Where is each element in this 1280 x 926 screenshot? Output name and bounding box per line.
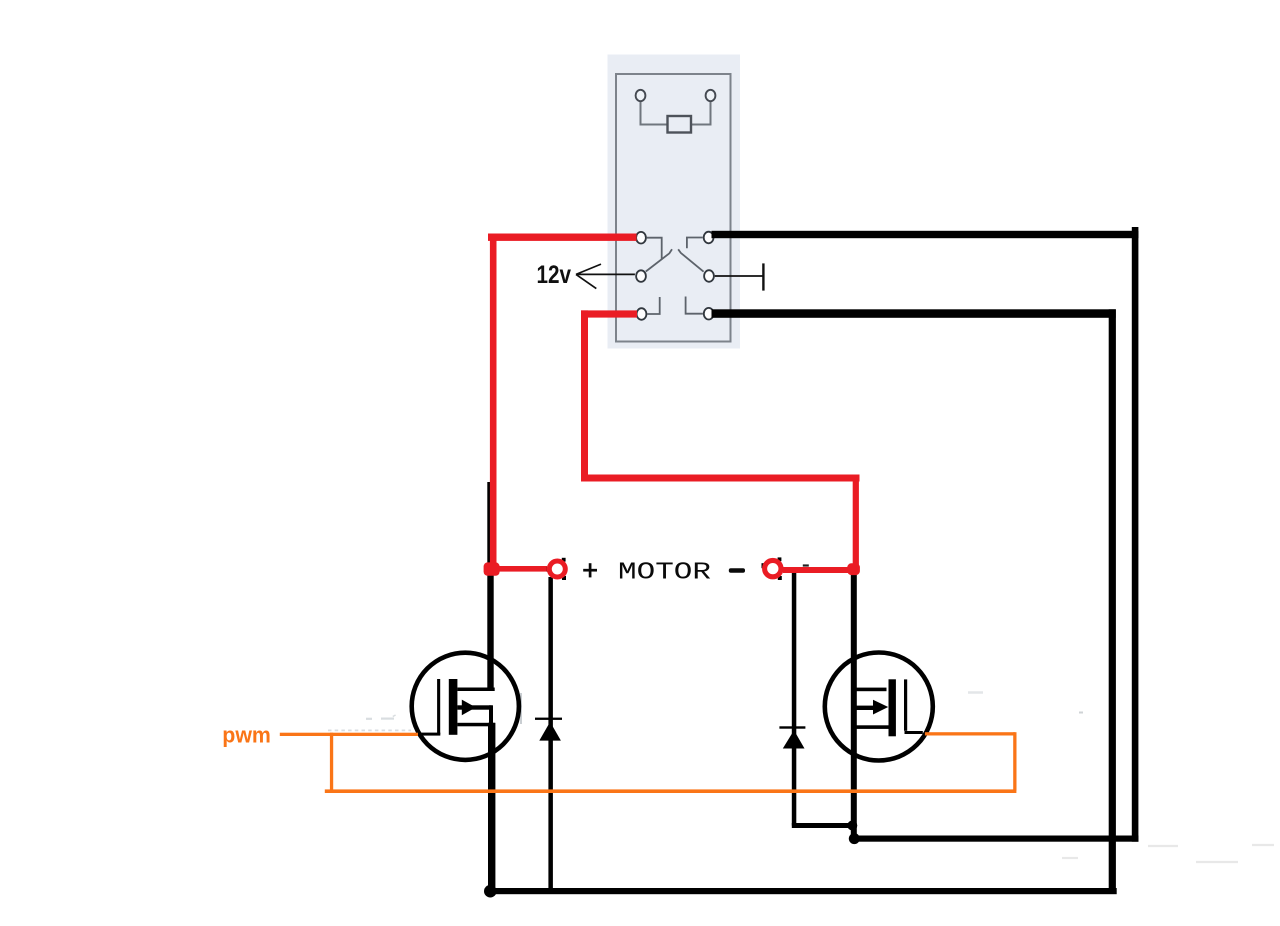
relay contact stubs and armatures — [646, 238, 704, 315]
wire orange to Q2 gate — [925, 732, 1015, 735]
label + — [583, 563, 597, 577]
faint artifacts bottom right — [1062, 845, 1274, 862]
relay coil — [636, 90, 716, 133]
wire black inner right vertical — [1109, 309, 1116, 894]
motor + terminal — [547, 558, 566, 580]
svg-text:MOTOR: MOTOR — [618, 559, 711, 586]
junction dot Q1 source / bottom wire — [484, 885, 497, 898]
wire black Q2 drain/source vertical — [851, 571, 857, 842]
svg-text:pwm: pwm — [222, 722, 271, 747]
wire black top from relay NO right pin — [712, 231, 1139, 238]
faint artifact near left diode — [520, 693, 522, 724]
wire orange vertical drop — [330, 733, 333, 793]
wire red to - motor terminal — [783, 567, 853, 573]
junction dot Q2 source corner — [849, 833, 860, 844]
faint artifact right of Q2 — [968, 691, 983, 694]
wire red right drop to motor junction — [853, 475, 859, 570]
transistor Q2 (right MOSFET) — [825, 653, 933, 761]
motor - terminal — [762, 557, 782, 580]
junction blob right motor node — [847, 563, 860, 575]
transistor Q1 (left MOSFET) — [412, 653, 519, 760]
junction dot D2 / Q2 source — [847, 821, 857, 831]
junction blob left motor node — [484, 562, 500, 575]
wire black outer bottom to Q2 source — [851, 836, 1139, 842]
relay contact pins — [636, 232, 714, 320]
wire red left vertical — [490, 234, 497, 564]
diode D2 — [779, 570, 855, 828]
wire black Q1 drain vertical — [487, 482, 493, 690]
wire black from relay lower right pin — [712, 309, 1116, 318]
wire orange right vertical rise — [1013, 732, 1016, 790]
wire black Q1 source vertical — [488, 723, 495, 892]
relay right pole lead with end bar — [715, 263, 764, 290]
wire red from relay lower left pin — [581, 310, 637, 317]
wire orange long bottom run — [325, 789, 1017, 793]
artifact black dash on red wire — [803, 564, 809, 566]
wire red long horizontal — [581, 475, 860, 482]
wire red mid vertical — [581, 310, 588, 481]
12v arrow lead — [576, 264, 635, 289]
wire red from relay NC left pin horizontal — [488, 234, 637, 241]
faint erased-line artifacts left of Q1 — [328, 715, 411, 730]
wire red to + motor terminal — [494, 566, 547, 572]
wire black outer right vertical — [1132, 227, 1139, 842]
label - — [729, 568, 745, 572]
relay K1 body — [608, 55, 741, 349]
diode D1 — [535, 577, 562, 891]
wire orange pwm to Q1 gate — [280, 733, 418, 736]
svg-text:12v: 12v — [537, 261, 572, 289]
wire black long bottom — [487, 888, 1117, 894]
